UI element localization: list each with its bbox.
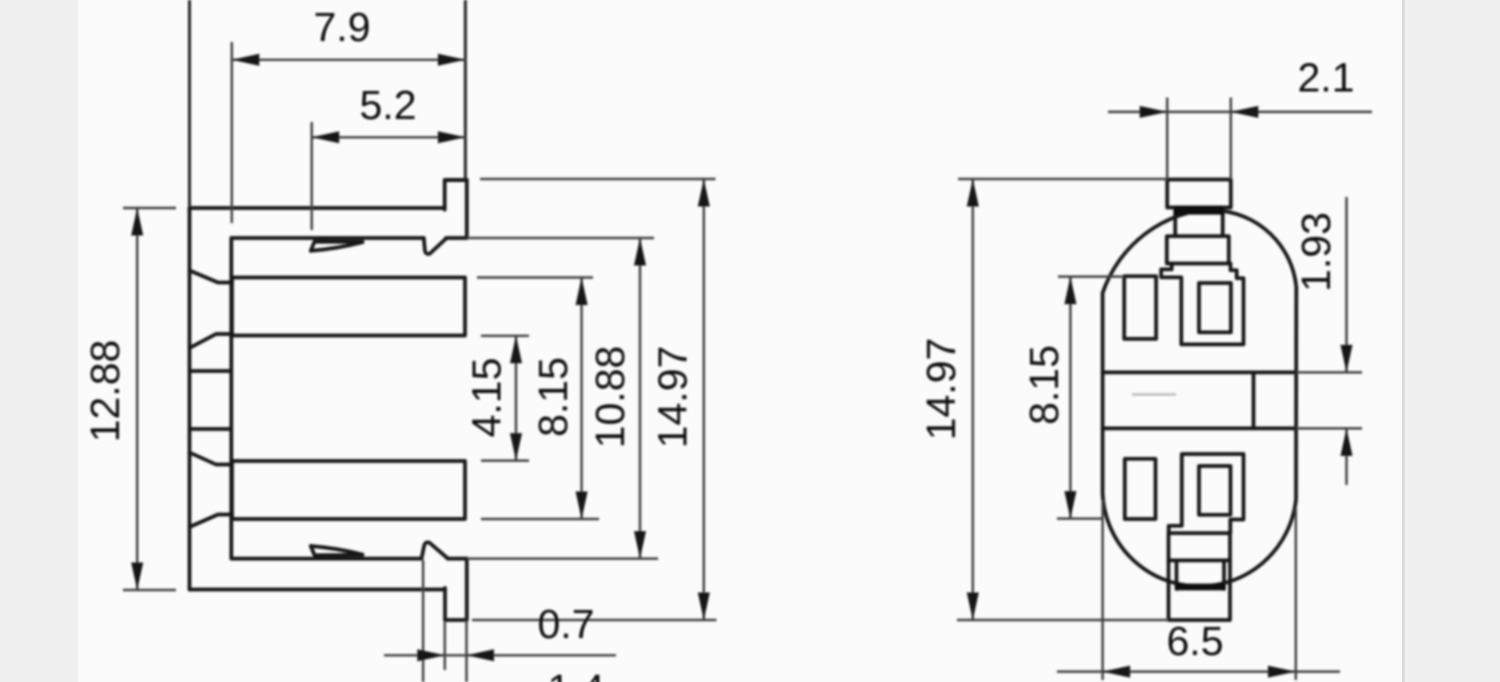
left view: extension slot2 bottom to 8.15 [481,518,599,520]
left view: extension line x=311.7 [310,122,312,230]
right view: extension 1.93 lower [1296,427,1362,429]
left view: dimension line 10.88 [639,238,641,559]
left view: dimension line 5.2 [312,136,467,138]
svg-text:8.15: 8.15 [1021,345,1067,425]
right view: lower left slot [1125,459,1156,519]
right view: dimension line 14.97 [972,179,974,620]
svg-text:0.7: 0.7 [538,601,595,647]
right view: extension 6.5 left [1101,500,1103,680]
left view: cavity left wall [229,238,233,559]
left view: upper terminal slot [232,278,465,336]
right strip edge line [1402,0,1405,682]
left view: lower retention lance [311,546,363,555]
left view: dimension line 7.9 [232,59,467,61]
left view: dimension line 0.7 [384,654,616,656]
right view: body outline [1103,209,1297,587]
left view: upper retention lance [311,242,363,251]
right view: dimension line 2.1 [1108,111,1372,113]
left view: wall rung 2 [190,427,232,431]
right view: top tab [1167,180,1231,208]
right view: foot inner horizontal [1169,559,1231,563]
right view: dimension line 6.5 [1057,670,1340,672]
svg-text:2.1: 2.1 [1298,55,1355,101]
left view: housing top surface [190,206,445,210]
left view: wall rung 1 [190,369,232,373]
right view: upper pocket inner rect [1199,283,1231,332]
left view: extension cavity bottom to 10.88 [467,557,658,559]
svg-text:10.88: 10.88 [587,346,633,449]
svg-text:1.93: 1.93 [1293,212,1339,292]
left view: bottom latch bump [422,542,448,558]
left view: lower terminal slot [232,461,465,519]
right view: collar stage 1 thick band [1175,208,1223,215]
left view: upper-left chamfer [190,271,233,283]
left view: dimension line 12.88 [136,208,138,590]
left view: chamfer above lower slot [190,453,233,465]
right view: mid slot divider [1252,372,1256,428]
right view: upper left slot [1124,276,1156,339]
svg-text:4.15: 4.15 [464,358,510,438]
svg-text:14.97: 14.97 [918,338,964,441]
right view: dimension line 8.15 [1069,277,1071,519]
left view: right face extension above [464,0,467,180]
left view: housing bottom surface [190,588,446,592]
left view: extension foot bottom 14.97 [472,619,717,621]
right view: extension 8.15 bottom [1057,517,1103,519]
left view: extension 12.88 top [123,207,176,209]
left view: lower-left chamfer [190,515,233,528]
left view: cavity top V-notch [424,238,446,254]
left view: dimension line 4.15 [515,336,517,461]
right view: extension 6.5 right [1295,508,1297,680]
left view: extension cavity top to 10.88 [467,237,654,239]
right view: faint mid line [1132,393,1176,395]
left view: top-right tab step [445,180,467,210]
right view: collar stage 1 [1175,208,1223,237]
right view: extension 1.93 upper [1296,371,1362,373]
left view: extension foot left x=423.1 [422,560,424,682]
svg-text:14.97: 14.97 [650,346,696,449]
left view: right face lower segment [465,559,469,620]
left view: cavity bottom line [232,557,422,561]
left view: tab top edge [445,178,467,182]
svg-text:12.88: 12.88 [82,340,128,443]
left grey margin strip [0,0,78,682]
left view: chamfer below upper slot [190,334,233,348]
left view: dimension line 8.15 [580,278,582,520]
right view: extension 14.97 top [958,178,1167,180]
svg-text:7.9: 7.9 [314,4,371,50]
right view: foot thick band [1177,584,1225,591]
right view: mid slot lower line [1103,427,1296,431]
svg-text:8.15: 8.15 [530,357,576,437]
right view: dimension line 1.93 upper [1345,197,1347,372]
left view: right face upper segment [465,180,469,238]
left view: extension slot2 top to 4.15 [481,459,529,461]
right grey margin strip [1405,0,1500,682]
svg-text:1.4: 1.4 [548,666,605,682]
right view: extension 8.15 top [1058,275,1124,277]
left view: housing left wall [188,208,192,590]
right view: foot inner verticals [1175,560,1179,589]
left view: extension slot1 bottom to 4.15 [481,335,529,337]
left view: extension 14.97 top [480,178,716,180]
left view: extension foot step x=444.8 [444,622,446,670]
right view: mid slot upper line [1103,371,1296,375]
left view: left edge extension above [188,0,191,208]
right view: lower pocket [1169,454,1244,533]
left view: dimension line 14.97 [703,179,705,620]
left view: extension line x=231.8 [231,42,233,223]
right view: collar stage 2 [1167,236,1229,263]
svg-text:6.5: 6.5 [1167,618,1224,664]
left view: cavity top line [232,236,424,240]
left view: mounting foot step [445,588,467,620]
left view: extension foot right x=466.5 [465,620,467,682]
right view: bottom foot [1169,533,1231,620]
left view: extension slot1 top to 8.15 [477,276,593,278]
svg-text:5.2: 5.2 [360,82,417,128]
right view: tab extension lines for 2.1 [1166,98,1168,180]
right view: dimension line 1.93 lower [1345,428,1347,485]
right view: lower pocket inner rect [1199,466,1231,515]
left view: extension 12.88 bottom [123,589,176,591]
right view: extension 14.97 bottom [957,619,1169,621]
right view: upper pocket [1161,264,1243,345]
